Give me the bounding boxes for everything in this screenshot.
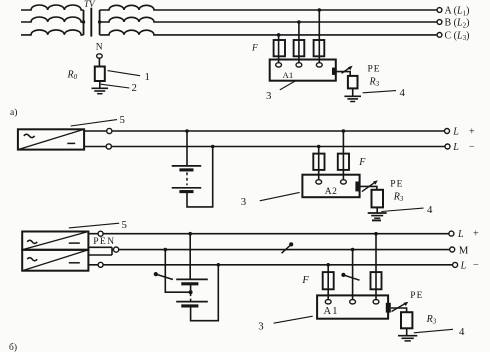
svg-text:а): а) — [10, 107, 17, 118]
svg-text:A2: A2 — [325, 187, 338, 197]
svg-text:3: 3 — [258, 320, 263, 332]
svg-text:+: + — [469, 127, 475, 138]
svg-text:4: 4 — [400, 87, 406, 99]
svg-text:PE: PE — [368, 65, 381, 75]
svg-text:5: 5 — [120, 114, 125, 126]
svg-text:L: L — [457, 229, 464, 240]
svg-text:B (L2): B (L2) — [445, 18, 470, 30]
svg-text:3: 3 — [241, 196, 246, 208]
svg-text:3: 3 — [266, 90, 271, 102]
svg-text:1: 1 — [145, 71, 150, 83]
svg-text:TV: TV — [84, 0, 96, 9]
svg-text:F: F — [251, 44, 258, 54]
svg-text:N: N — [96, 43, 103, 53]
svg-text:C (L3): C (L3) — [445, 30, 470, 42]
svg-text:F: F — [301, 275, 309, 286]
svg-text:F: F — [358, 157, 366, 168]
svg-text:M: M — [459, 244, 469, 256]
svg-text:4: 4 — [459, 326, 465, 338]
svg-text:L: L — [452, 142, 459, 153]
svg-text:PE: PE — [410, 291, 423, 301]
svg-text:+: + — [473, 229, 479, 240]
svg-text:−: − — [473, 260, 479, 271]
svg-text:4: 4 — [427, 204, 433, 216]
svg-text:б): б) — [9, 342, 17, 352]
svg-text:PE: PE — [390, 180, 403, 190]
svg-text:PEN: PEN — [93, 236, 115, 247]
svg-text:A (L1): A (L1) — [445, 6, 470, 18]
svg-text:5: 5 — [122, 219, 127, 231]
svg-text:A1: A1 — [283, 70, 294, 80]
svg-text:2: 2 — [132, 82, 137, 94]
svg-text:L: L — [460, 261, 467, 272]
svg-text:L: L — [452, 127, 459, 138]
svg-text:−: − — [469, 142, 475, 153]
svg-text:A1: A1 — [324, 306, 339, 317]
